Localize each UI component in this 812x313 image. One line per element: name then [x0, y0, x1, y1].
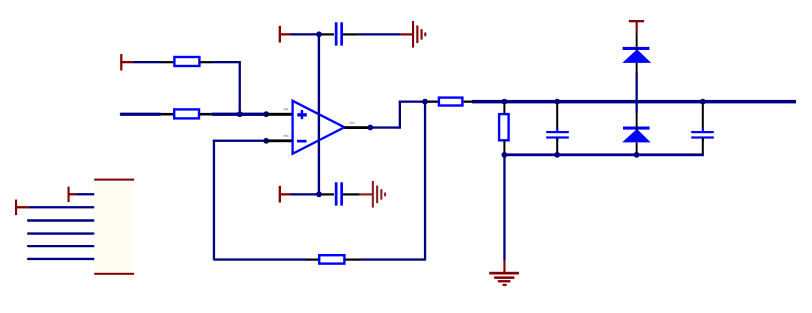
junction — [367, 125, 373, 131]
pin stub — [702, 103, 704, 130]
capacitor C1 — [335, 22, 343, 45]
junction — [263, 111, 269, 117]
wire (pin 1) — [77, 193, 95, 195]
resistor R2 — [161, 109, 212, 118]
capacitor C3 — [546, 128, 569, 142]
pin stub — [702, 138, 704, 154]
wire (output up to rail) — [370, 101, 426, 129]
pin stub — [322, 33, 335, 35]
wire (pin 6) — [27, 258, 94, 260]
port P3 (bottom supply port) — [279, 186, 291, 203]
pin stub — [636, 34, 638, 47]
ground (rotated earth, top) — [400, 21, 426, 48]
ground (earth, bottom center) — [489, 260, 519, 286]
wire — [291, 33, 318, 35]
diode D2 (clamp to ground) — [622, 127, 651, 143]
pin stub — [343, 33, 359, 35]
junction — [316, 31, 322, 37]
pin stub (op-amp output) — [344, 126, 370, 129]
port P2 (top supply port) — [279, 26, 291, 43]
wire — [212, 113, 267, 116]
wire (main output rail) — [472, 100, 796, 104]
pin stub — [503, 141, 505, 154]
resistor R1 — [161, 57, 212, 66]
junction — [554, 152, 560, 158]
pin stub — [503, 103, 505, 115]
capacitor C2 — [335, 182, 343, 205]
wire — [134, 61, 162, 63]
pin stub (op-amp - input pin) — [266, 139, 292, 142]
pin stub — [636, 143, 638, 155]
junction — [502, 99, 508, 105]
port P4 (connector pin 1 port) — [68, 187, 77, 202]
junction — [263, 138, 269, 144]
pin stub — [556, 103, 558, 130]
op-amp U1 — [293, 101, 345, 154]
diode D1 (clamp to supply) — [622, 47, 651, 63]
junction — [554, 99, 560, 105]
pin number mark — [350, 122, 355, 124]
port P1 (top-left input port) — [120, 54, 134, 71]
junction — [634, 152, 640, 158]
junction — [502, 152, 508, 158]
power terminal (diode clamp supply) — [629, 20, 644, 34]
wire — [291, 193, 318, 195]
pin stub — [556, 138, 558, 154]
junction — [422, 99, 428, 105]
pin stub — [636, 113, 638, 127]
resistor R5 (load, vertical) — [499, 114, 509, 140]
wire (power rail vertical through op-amp) — [318, 34, 320, 194]
capacitor C4 — [691, 128, 714, 142]
wire (pin 5) — [27, 245, 94, 247]
pin stub — [343, 193, 360, 195]
junction — [700, 99, 706, 105]
pin stub (op-amp + input pin) — [266, 113, 292, 116]
pin number mark — [284, 108, 289, 110]
pin stub — [636, 63, 638, 72]
connector J1 body — [94, 179, 134, 275]
port P5 (connector pin 2 port) — [15, 200, 29, 215]
junction — [237, 111, 243, 117]
wire (down to ground) — [503, 155, 505, 260]
pin stub — [322, 193, 335, 195]
wire (pin 2) — [29, 206, 94, 208]
wire (bottom rail) — [503, 153, 704, 156]
wire (feedback to - input) — [213, 140, 267, 261]
resistor R4 (series output) — [427, 98, 472, 106]
wire — [359, 33, 400, 35]
wire (+ input line) — [120, 113, 162, 116]
wire — [636, 72, 638, 113]
junction — [316, 191, 322, 197]
wire — [212, 61, 241, 115]
pin number mark — [284, 135, 289, 137]
resistor R3 (feedback) — [306, 255, 359, 263]
wire (pin 3) — [27, 219, 94, 222]
ground (rotated earth, bottom) — [360, 181, 387, 208]
wire (feedback loop) — [214, 102, 426, 261]
wire (pin 4) — [27, 232, 94, 234]
